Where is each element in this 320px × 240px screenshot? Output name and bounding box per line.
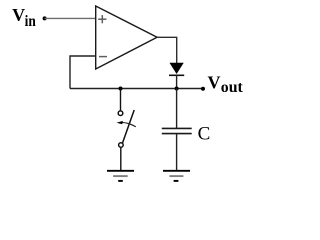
op-amp U1 triangle xyxy=(96,6,157,69)
ground (below capacitor) xyxy=(163,171,190,181)
svg-text:V: V xyxy=(208,73,221,93)
wire diode cathode down to output bus xyxy=(176,75,178,88)
op-amp - input marking xyxy=(99,56,107,58)
wire bus down to switch top contact xyxy=(120,89,122,111)
wire output of op-amp right then down to diode xyxy=(157,37,177,63)
op-amp + input marking xyxy=(98,15,106,23)
ground (below switch) xyxy=(107,171,134,181)
switch S1 top contact xyxy=(118,111,123,116)
wire feedback from - input left and down xyxy=(70,56,96,89)
wire capacitor branch down from bus xyxy=(176,89,178,129)
switch S1 blade xyxy=(122,110,134,143)
node Vout terminal dot xyxy=(201,87,205,91)
wire output bus horizontal xyxy=(70,88,203,90)
switch S1 actuation arrow xyxy=(122,123,136,127)
svg-text:V: V xyxy=(12,5,25,25)
wire capacitor to ground xyxy=(176,134,178,170)
capacitor C plates xyxy=(162,127,192,129)
switch S1 bottom contact xyxy=(119,143,124,148)
wire Vin to op-amp + input xyxy=(45,17,96,19)
svg-text:C: C xyxy=(198,124,211,145)
svg-text:out: out xyxy=(221,79,244,96)
node junction dot at switch branch xyxy=(119,87,123,91)
wire switch bottom to ground xyxy=(120,147,122,170)
svg-text:in: in xyxy=(25,13,37,30)
diode D1 (anode top, cathode bottom) xyxy=(170,63,183,73)
node junction dot at capacitor branch xyxy=(175,87,179,91)
node Vin terminal dot xyxy=(43,16,47,20)
